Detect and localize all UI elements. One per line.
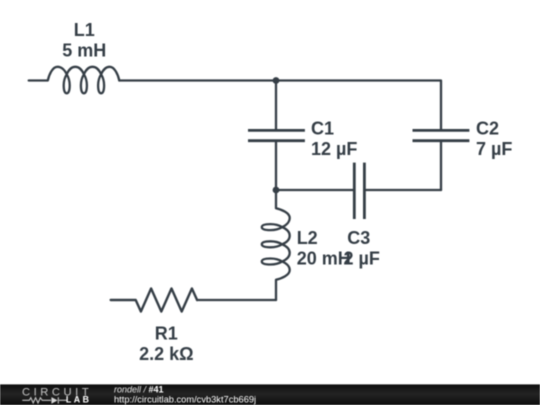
capacitor C2 lead bottom [440,142,442,190]
svg-text:12 µF: 12 µF [311,139,357,159]
capacitor C1 lead top [275,81,277,130]
wire from C3 to C2 bottom [366,189,441,191]
svg-text:C1: C1 [311,118,334,138]
node B junction dot [273,187,280,194]
wire bottom from L2 to R1 [197,299,276,301]
svg-text:L1: L1 [74,20,95,40]
CircuitLab logo circuit doodle [22,397,66,403]
svg-text:rondell / #41: rondell / #41 [114,384,164,394]
capacitor C3 plates [354,163,364,219]
wire top from L1 to node A [119,79,276,81]
inductor L1 [29,67,120,94]
svg-text:http://circuitlab.com/cvb3kt7c: http://circuitlab.com/cvb3kt7cb669j [114,394,256,404]
node A junction dot [273,77,280,84]
svg-text:2.2 kΩ: 2.2 kΩ [139,344,193,364]
svg-text:2 µF: 2 µF [344,248,380,268]
wire top from node A to C2 branch [276,81,441,130]
resistor R1 [111,289,197,312]
inductor L2 [262,190,290,300]
wire bottom from node B to C3 [276,189,353,191]
svg-text:5 mH: 5 mH [62,41,106,61]
capacitor C1 plates [248,130,305,140]
svg-text:C3: C3 [347,228,370,248]
svg-text:7 µF: 7 µF [476,139,512,159]
svg-text:L2: L2 [297,228,318,248]
capacitor C2 plates [413,130,470,140]
svg-text:C2: C2 [476,118,499,138]
svg-text:R1: R1 [155,324,178,344]
capacitor C1 lead bottom [275,142,277,190]
svg-text:LAB: LAB [66,395,92,405]
